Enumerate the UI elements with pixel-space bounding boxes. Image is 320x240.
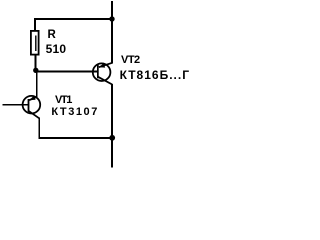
transistor VT2 emitter arrow (PNP) bbox=[99, 63, 105, 67]
label VT2 type KT816B...G bbox=[120, 69, 190, 81]
label VT1 type KT3107 bbox=[51, 107, 98, 118]
wire bottom horizontal (VT1 collector to rail) bbox=[38, 137, 113, 139]
node junction A (R bottom / VT2 base / VT1 emitter) bbox=[33, 68, 38, 73]
transistor VT1 emitter diagonal bbox=[29, 97, 37, 100]
resistor R1 body bbox=[31, 31, 39, 55]
label R value 510 bbox=[46, 43, 67, 55]
node junction B (collectors) bbox=[109, 135, 115, 141]
wire VT1 base lead bbox=[3, 104, 29, 106]
label VT1 designator bbox=[55, 95, 71, 106]
transistor VT2 collector diagonal bbox=[98, 77, 112, 85]
transistor VT2 base bar bbox=[97, 65, 99, 79]
transistor Q1 VT1 circle bbox=[23, 96, 41, 114]
label R designator bbox=[48, 30, 56, 42]
transistor Q2 VT2 circle bbox=[93, 63, 111, 81]
transistor VT1 collector diagonal bbox=[29, 111, 40, 119]
label VT2 designator bbox=[121, 55, 140, 66]
node junction top (rail / R top wire) bbox=[109, 16, 114, 21]
transistor VT2 emitter diagonal bbox=[99, 63, 112, 67]
wire right rail lower (VT2 collector to bottom) bbox=[111, 84, 113, 168]
wire right rail upper (top edge down to VT2 emitter) bbox=[111, 1, 113, 64]
wire resistor top lead bbox=[34, 19, 36, 31]
transistor VT1 emitter arrow (PNP) bbox=[29, 96, 35, 100]
wire resistor bottom lead bbox=[35, 55, 37, 69]
wire VT1 collector lead down bbox=[38, 118, 40, 139]
resistor inner mark bbox=[35, 36, 36, 52]
wire junction A down to VT1 emitter bbox=[36, 70, 38, 97]
wire top horizontal (R top to VT2 emitter rail) bbox=[34, 18, 113, 20]
transistor VT1 base bar bbox=[28, 99, 30, 112]
wire VT2 base horizontal bbox=[36, 71, 98, 73]
